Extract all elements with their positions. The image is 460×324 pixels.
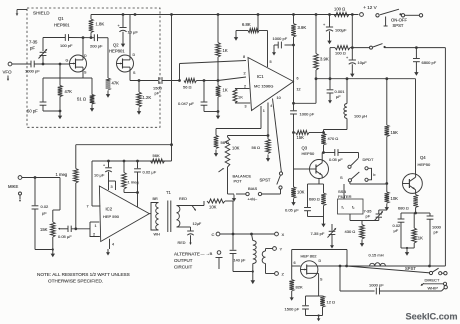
ground bias: [232, 195, 236, 202]
svg-text:100 Ω: 100 Ω: [334, 7, 345, 12]
junction 6800pF: [415, 46, 418, 49]
label BALANCE: [233, 174, 252, 179]
resistor 15K b: [385, 79, 390, 184]
junction 3.9K a rail: [292, 13, 295, 16]
wire Q4 collector: [415, 79, 417, 174]
svg-text:2: 2: [93, 233, 95, 237]
capacitor 140pF: [230, 234, 237, 272]
T1 primary bracket: [151, 203, 159, 231]
wire +12V rail: [91, 14, 359, 16]
junction 1.8K bottom: [90, 36, 93, 39]
label 1000 pF bias: [273, 36, 288, 41]
label Y: [280, 247, 283, 252]
label 1500 pF q5: [285, 307, 300, 312]
wire spst to direct: [442, 272, 444, 274]
label 0.02 uF q4: [393, 223, 402, 233]
label 6.8K: [242, 22, 251, 27]
label IC1: [257, 74, 264, 79]
terminal row4: [443, 282, 446, 285]
svg-text:1.2K: 1.2K: [143, 95, 152, 100]
capacitor 100uF: [323, 15, 333, 38]
svg-text:470 Ω: 470 Ω: [328, 136, 339, 141]
label 1K upper: [223, 48, 228, 53]
label RED top: [179, 197, 187, 201]
svg-text:7-35: 7-35: [29, 40, 38, 45]
ground Q4 emitter: [405, 247, 409, 256]
svg-text:1K: 1K: [223, 88, 228, 93]
arrow direct stub: [421, 283, 443, 286]
wire 10K to X: [225, 201, 233, 234]
switch SPST bias top: [279, 172, 282, 175]
resistor 56 ohm carrier: [184, 78, 197, 82]
note line 1: [37, 272, 130, 277]
capacitor 10uF b: [346, 48, 356, 70]
junction audio in: [74, 227, 77, 230]
label 100 pF: [60, 43, 73, 48]
label 1 meg a: [56, 172, 68, 177]
wire alt top: [292, 250, 347, 267]
svg-text:56 Ω: 56 Ω: [252, 145, 261, 150]
label Q4: [420, 155, 426, 160]
svg-text:3: 3: [245, 105, 247, 109]
wire lower whip: [340, 266, 375, 291]
label 1 meg b: [128, 180, 139, 185]
svg-text:100 Ω: 100 Ω: [335, 51, 346, 56]
wire Q5 gate: [292, 250, 301, 267]
wire 15K to 470: [309, 132, 324, 134]
wire switch to terminal: [405, 14, 419, 16]
wire 6.8K to rail: [257, 15, 259, 31]
svg-text:12: 12: [297, 88, 301, 92]
svg-text:SPST: SPST: [405, 266, 416, 271]
svg-text:680 Ω: 680 Ω: [309, 197, 320, 202]
transformer T1 core: [168, 201, 171, 233]
wire emitter right branch: [416, 212, 430, 214]
wire 6.8K to pin5: [259, 31, 268, 68]
label pin 2: [244, 72, 246, 76]
pot wiper: [58, 228, 68, 230]
label +4.5: [248, 198, 258, 202]
capacitor 0.05uF emitter: [304, 184, 311, 217]
wire carrier to pin 2: [218, 77, 246, 81]
junction riser mid: [170, 143, 173, 146]
label HEP50 Q4: [418, 162, 431, 167]
switch S1a contact 1: [348, 165, 351, 168]
junction 3.9K b rail: [315, 13, 318, 16]
junction tank top: [250, 233, 253, 236]
label 1000 pF q4: [432, 225, 442, 235]
transistor Q4 HEP50: [403, 174, 423, 194]
svg-text:2: 2: [244, 85, 246, 89]
label G Q1: [66, 59, 69, 63]
wire supply line: [92, 160, 172, 162]
transformer T1 secondary: [177, 206, 180, 228]
capacitor 7-35pF trimmer: [39, 38, 48, 65]
wire right rail: [444, 48, 446, 266]
svg-text:X: X: [282, 232, 285, 237]
svg-text:0.02 μF: 0.02 μF: [143, 170, 157, 175]
svg-text:MC 1596G: MC 1596G: [254, 84, 273, 89]
label SPST a: [393, 23, 404, 28]
svg-text:WHIP: WHIP: [428, 286, 439, 291]
wire rail to sw node: [351, 15, 354, 49]
watermark SeekIC.com: [406, 311, 458, 321]
arrow sec ground: [192, 206, 196, 212]
label 56 ohm b: [221, 140, 230, 145]
wire Q5 source: [306, 273, 323, 296]
label 3.9K b: [320, 57, 329, 62]
svg-text:G: G: [66, 59, 69, 63]
label pin 3: [245, 105, 247, 109]
note line 2: [48, 278, 103, 283]
svg-text:10K: 10K: [209, 205, 217, 210]
label 10 uF b: [358, 60, 368, 65]
label arrow B: [201, 251, 213, 256]
label pin 4: [270, 104, 272, 108]
label X: [282, 232, 285, 237]
svg-text:1: 1: [263, 109, 265, 113]
svg-text:WH: WH: [154, 233, 161, 237]
label 0.001 uF: [335, 89, 346, 99]
label S Q1: [84, 71, 87, 75]
ic2 pin box: [109, 181, 116, 190]
junction pin8 riser: [178, 79, 181, 82]
capacitor 0.001uF: [327, 79, 334, 97]
svg-text:7: 7: [87, 205, 89, 209]
junction lower rail 330: [329, 77, 332, 80]
label IC2: [106, 207, 113, 212]
svg-text:680 Ω: 680 Ω: [398, 206, 409, 211]
capacitor 50pF: [40, 78, 47, 111]
label pin 5: [270, 60, 272, 64]
resistor 100 ohm b: [335, 46, 353, 50]
label 1000 pF: [25, 69, 40, 74]
capacitor 1500pF: [159, 77, 162, 84]
wire mike: [22, 177, 60, 179]
svg-text:10K: 10K: [391, 196, 399, 201]
wire fb join: [124, 191, 139, 207]
svg-text:4: 4: [112, 243, 114, 247]
label 0.02 mike: [41, 204, 50, 216]
wire Q2 source: [130, 72, 158, 81]
resistor 51 ohm Q1 source: [90, 78, 95, 112]
junction lower rail choke: [346, 77, 349, 80]
label 1K feedback: [238, 95, 243, 100]
label ON-OFF: [391, 18, 407, 23]
svg-text:Q3: Q3: [302, 146, 308, 151]
wire to 1K junction: [204, 80, 218, 82]
label pin 1: [263, 109, 265, 113]
junction Q3 coll cap: [322, 151, 325, 154]
label pin 8: [243, 55, 245, 59]
wire VFO to cap: [12, 63, 31, 65]
label 3.9K a: [298, 25, 307, 30]
wire osc top: [43, 37, 65, 39]
svg-text:1: 1: [95, 224, 97, 228]
wire pot to bias gnd: [228, 193, 235, 195]
svg-text:10: 10: [277, 96, 281, 100]
junction 1meg b: [123, 160, 126, 163]
label FILTER: [338, 194, 352, 199]
wire emitter bottoms: [401, 247, 414, 249]
wire main line: [340, 265, 445, 267]
switch ON-OFF SPST terminal a: [376, 14, 379, 17]
inductor 0.15mH: [370, 263, 386, 266]
label 1K lower: [223, 88, 228, 93]
junction Q4 base: [385, 182, 388, 185]
wire 047 to gnd node: [204, 111, 218, 113]
junction gate node: [59, 63, 62, 66]
junction lower rail 15K: [385, 77, 388, 80]
svg-text:140 pF: 140 pF: [234, 259, 247, 263]
resistor 47K Q2 gate: [106, 64, 111, 98]
svg-text:10K: 10K: [232, 146, 240, 151]
wire link top: [266, 249, 273, 252]
label pin 2b: [244, 85, 246, 89]
junction Q1 drain riser: [82, 36, 85, 39]
junction 470 top: [322, 131, 325, 134]
wire riser top: [171, 15, 173, 162]
label S: [340, 175, 343, 180]
wire cap to switch: [338, 153, 359, 159]
label 10K balance: [232, 146, 240, 151]
ground q5: [317, 314, 321, 321]
label 56K: [153, 153, 160, 158]
svg-text:POT: POT: [234, 179, 243, 184]
svg-text:D: D: [133, 53, 136, 57]
wire 100pF to drain node: [69, 37, 95, 39]
wire mike riser: [53, 178, 60, 223]
ground 6800pF: [414, 69, 418, 76]
label BR: [153, 197, 159, 201]
junction 100 ohm right: [351, 13, 354, 16]
label OUTPUT: [174, 258, 193, 263]
svg-text:12μF: 12μF: [193, 222, 202, 226]
svg-text:0.02: 0.02: [41, 204, 50, 209]
resistor R 100 ohm rail: [334, 12, 349, 16]
label Q2: [113, 43, 119, 48]
terminal VFO: [8, 62, 12, 66]
label 15K a: [297, 135, 305, 140]
capacitor 100pF: [65, 34, 68, 41]
wire output join: [294, 102, 317, 104]
svg-text:SPST: SPST: [260, 178, 271, 183]
capacitor 1000pF bias: [274, 42, 295, 49]
label pin4 ic2: [112, 243, 114, 247]
label 10K q4: [391, 196, 399, 201]
svg-text:ON-OFF: ON-OFF: [391, 18, 407, 23]
label RED bottom: [178, 241, 186, 245]
transistor Q5 HEP802: [301, 261, 319, 278]
resistor 3.9K b: [314, 15, 319, 104]
resistor 1K lower: [216, 81, 221, 112]
wire 50pF gnd link: [43, 110, 60, 112]
wire pin4 ic2: [109, 239, 111, 249]
wire 1meg a feed: [76, 144, 172, 146]
wire audio to IC2: [71, 228, 90, 230]
wire pin1 balance: [216, 128, 261, 130]
wire switched rail lower: [316, 78, 416, 80]
switch SPST bias lever: [277, 176, 281, 185]
wire T1 sec bottom: [177, 226, 191, 228]
svg-text:BR: BR: [153, 197, 159, 201]
svg-text:8: 8: [243, 55, 245, 59]
label CIRCUIT: [174, 265, 192, 270]
ground carrier divider: [216, 110, 220, 119]
wire T1 sec top: [177, 201, 205, 206]
wire 56ohm to 1K node: [197, 80, 205, 82]
svg-text:82K: 82K: [296, 285, 303, 290]
resistor 1.8K: [89, 15, 94, 38]
svg-text:0.05 μF: 0.05 μF: [329, 157, 343, 162]
svg-text:VFO: VFO: [3, 70, 13, 75]
resistor 10K Q3: [291, 169, 296, 206]
terminal WHIP: [444, 286, 447, 289]
op-amp IC1 MC1596G: [248, 58, 294, 111]
mike jack ground: [19, 192, 22, 202]
resistor 680 ohm Q3: [321, 184, 326, 217]
switch S1a lever 2: [351, 172, 359, 179]
junction trimmer bottom: [42, 63, 45, 66]
junction 0.02 cap a: [34, 176, 37, 179]
svg-text:100μF: 100μF: [335, 28, 347, 33]
svg-text:HEP801: HEP801: [109, 49, 125, 54]
label pin1 ic2: [95, 224, 97, 228]
label WH: [154, 233, 161, 237]
potentiometer 15K: [51, 222, 56, 250]
svg-text:SeekIC.com: SeekIC.com: [406, 311, 458, 321]
label 0.05 audio: [58, 234, 72, 239]
ground 1000pF bias: [272, 49, 276, 56]
label 100 ohm: [334, 7, 345, 12]
label 56 ohm c: [252, 145, 261, 150]
label 100 uF: [335, 28, 347, 33]
label 1500 pF: [153, 86, 163, 96]
svg-text:HEP50: HEP50: [418, 162, 431, 167]
label DPDT: [363, 157, 374, 162]
svg-text:1 meg: 1 meg: [56, 172, 68, 177]
wire q5 bottom: [306, 315, 323, 317]
switch SPST bias bottom: [279, 186, 282, 189]
wire 200pF to Q2 gate riser: [98, 38, 109, 64]
wire Q3 emitter: [308, 179, 324, 185]
svg-text:200 pF: 200 pF: [90, 44, 103, 49]
wire 1500pF to junction: [162, 80, 180, 82]
label BIAS: [248, 186, 257, 191]
svg-text:47K: 47K: [65, 89, 73, 94]
wire lower whip b: [380, 288, 445, 291]
svg-text:10μF: 10μF: [358, 60, 368, 65]
ground 7-35 tank: [330, 242, 334, 249]
label b: [373, 172, 376, 177]
junction out bottom: [292, 102, 295, 105]
svg-text:15K: 15K: [40, 227, 48, 232]
op-amp IC2 HEP590: [99, 186, 149, 242]
label SSB: [338, 189, 346, 194]
junction 10uF cap rail: [122, 13, 125, 16]
junction 15K base: [292, 131, 295, 134]
label HEP801 Q2: [109, 49, 125, 54]
terminal +12V: [360, 13, 364, 17]
label 1000 pF whip: [369, 282, 384, 287]
wire C to X: [220, 233, 275, 235]
svg-text:SHIELD: SHIELD: [33, 11, 50, 16]
svg-text:2: 2: [244, 72, 246, 76]
label MC 1596G: [254, 84, 273, 89]
label S Q2: [133, 71, 136, 75]
svg-text:56 Ω: 56 Ω: [183, 85, 192, 90]
label pinS q5: [320, 278, 323, 282]
label 200 pF: [90, 44, 103, 49]
capacitor 6800pF: [413, 48, 420, 69]
capacitor 1000pF q4: [427, 213, 434, 266]
wire pin4 balance: [228, 135, 269, 137]
ground 100uF: [327, 37, 331, 44]
wire choke link: [324, 130, 348, 133]
svg-text:1000 pF: 1000 pF: [369, 282, 384, 287]
transistor Q2 HEP801: [117, 55, 134, 72]
label 15K pot: [40, 227, 48, 232]
svg-text:50 pF: 50 pF: [27, 109, 38, 114]
resistor 56K: [151, 159, 165, 163]
svg-text:1 meg: 1 meg: [128, 180, 139, 185]
switch ON-OFF terminal b: [401, 14, 404, 17]
label f2: [352, 206, 355, 210]
wire switched rail upper: [353, 47, 369, 49]
svg-text:430 Ω: 430 Ω: [345, 229, 356, 234]
label pin 6: [297, 77, 299, 81]
wire tank bottom: [233, 271, 253, 273]
potentiometer 10K balance: [225, 136, 230, 195]
label Q3: [302, 146, 308, 151]
arrow 12uF ground: [189, 239, 191, 246]
capacitor 0.05uF out: [335, 149, 338, 156]
svg-text:6800 pF: 6800 pF: [422, 60, 437, 65]
junction 1K carrier: [217, 79, 220, 82]
capacitor 12uF: [187, 227, 194, 239]
ground Q3 emitter: [321, 217, 325, 228]
svg-text:7-35 pF: 7-35 pF: [311, 231, 325, 236]
wire link bottom: [266, 264, 275, 274]
terminal battery: [419, 14, 422, 17]
switch S1a contact 2: [348, 179, 351, 182]
capacitor 1000pF whip: [376, 288, 379, 295]
svg-text:MIKE: MIKE: [8, 184, 18, 189]
shield ground arrow: [16, 10, 27, 17]
terminal Y: [273, 247, 277, 251]
label HEP801 Q1: [54, 23, 70, 28]
label 6800 pF: [422, 60, 437, 65]
label C: [212, 232, 215, 237]
label 100 uH: [354, 114, 367, 119]
resistor 10K Q4: [385, 184, 390, 211]
svg-text:6.8K: 6.8K: [242, 22, 251, 27]
switch SPST out contact: [429, 271, 432, 274]
ground ic2 pin4: [106, 249, 110, 256]
resistor 1K feedback: [233, 89, 250, 104]
resistor 6.8K: [236, 28, 259, 32]
ground 0.001uF: [328, 97, 332, 104]
label 47K b: [112, 81, 120, 86]
label POT: [234, 179, 243, 184]
svg-text:56K: 56K: [153, 153, 160, 158]
svg-text:6: 6: [294, 261, 296, 265]
junction Q2 drain on rail: [134, 13, 137, 16]
terminal DIRECT: [444, 272, 447, 275]
switch S1b contact 2: [365, 178, 368, 181]
svg-text:Q2: Q2: [113, 43, 119, 48]
capacitor 0.02uF q4: [398, 213, 405, 248]
